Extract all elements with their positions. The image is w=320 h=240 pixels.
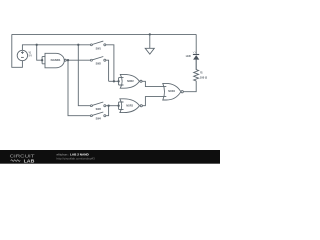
svg-text:SW2: SW2 (96, 62, 101, 66)
svg-text:NAND1: NAND1 (51, 58, 61, 62)
svg-text:LED: LED (186, 54, 191, 58)
svg-text:http://circuitlab.com/cmcbqt43: http://circuitlab.com/cmcbqt43 (57, 157, 96, 161)
svg-text:SW1: SW1 (96, 46, 101, 50)
svg-text:100 Ω: 100 Ω (200, 75, 208, 79)
svg-text:5 V: 5 V (29, 54, 32, 58)
svg-text:NOR4: NOR4 (168, 89, 175, 93)
svg-text:LAB: LAB (24, 158, 35, 163)
svg-text:SW4: SW4 (96, 117, 101, 121)
svg-text:R1: R1 (200, 71, 203, 75)
svg-text:NOR3: NOR3 (126, 103, 133, 107)
svg-text:NOR2: NOR2 (127, 79, 134, 83)
svg-text:SW3: SW3 (96, 107, 101, 111)
